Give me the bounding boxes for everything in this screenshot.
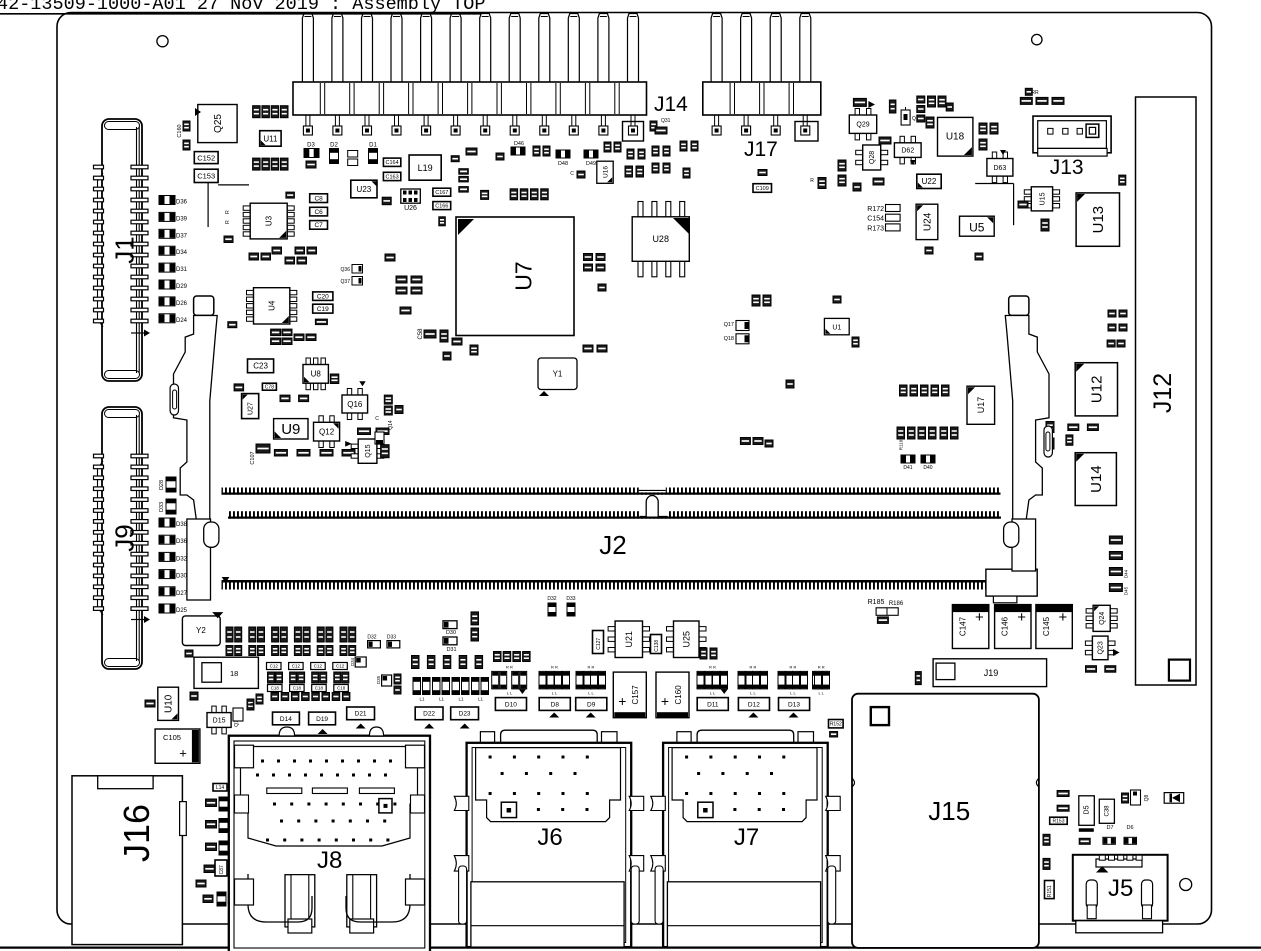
svg-text:R: R bbox=[810, 178, 814, 184]
svg-text:Q: Q bbox=[912, 116, 916, 122]
svg-text:C8: C8 bbox=[314, 196, 323, 203]
svg-text:D44: D44 bbox=[1124, 569, 1129, 578]
svg-text:D15: D15 bbox=[213, 718, 226, 725]
svg-text:J5: J5 bbox=[1108, 875, 1133, 902]
svg-text:C19: C19 bbox=[317, 306, 329, 313]
svg-text:U9: U9 bbox=[281, 421, 300, 438]
svg-text:R R: R R bbox=[818, 665, 825, 670]
svg-text:R R: R R bbox=[750, 665, 757, 670]
svg-text:D28: D28 bbox=[159, 480, 165, 490]
svg-text:C12: C12 bbox=[270, 664, 279, 669]
svg-text:D10: D10 bbox=[505, 701, 517, 708]
svg-text:Q24: Q24 bbox=[1099, 612, 1106, 625]
svg-text:R185: R185 bbox=[868, 599, 885, 606]
svg-text:Q12: Q12 bbox=[319, 428, 335, 437]
svg-text:Q8: Q8 bbox=[1144, 794, 1150, 801]
svg-text:U25: U25 bbox=[682, 631, 692, 648]
svg-text:D33: D33 bbox=[159, 502, 165, 512]
svg-text:L L: L L bbox=[750, 691, 756, 696]
svg-text:C163: C163 bbox=[386, 174, 399, 180]
svg-text:L1: L1 bbox=[458, 697, 464, 702]
svg-text:D26: D26 bbox=[176, 301, 188, 307]
svg-text:J12: J12 bbox=[1149, 373, 1177, 413]
svg-text:C127: C127 bbox=[596, 638, 602, 650]
svg-text:D33: D33 bbox=[387, 635, 396, 641]
svg-text:D34: D34 bbox=[176, 250, 188, 256]
svg-text:U11: U11 bbox=[263, 134, 278, 143]
svg-text:D3: D3 bbox=[307, 143, 315, 149]
svg-text:D29: D29 bbox=[176, 284, 188, 290]
svg-text:U15: U15 bbox=[1040, 192, 1047, 205]
svg-text:Q29: Q29 bbox=[856, 122, 869, 129]
svg-text:R110: R110 bbox=[899, 439, 904, 450]
svg-text:L1: L1 bbox=[419, 697, 425, 702]
svg-text:U21: U21 bbox=[624, 631, 634, 648]
svg-text:J17: J17 bbox=[744, 138, 778, 161]
svg-text:D22: D22 bbox=[423, 711, 435, 718]
svg-text:C78: C78 bbox=[265, 385, 274, 391]
svg-text:D37: D37 bbox=[176, 233, 188, 239]
svg-text:C166: C166 bbox=[435, 204, 448, 210]
svg-text:R186: R186 bbox=[889, 601, 904, 607]
svg-text:RR: RR bbox=[1031, 90, 1039, 96]
svg-text:D62: D62 bbox=[901, 148, 914, 155]
svg-text:Q18: Q18 bbox=[724, 336, 734, 342]
svg-text:D5: D5 bbox=[1084, 805, 1091, 814]
svg-text:J19: J19 bbox=[984, 668, 999, 678]
svg-text:R R: R R bbox=[551, 665, 558, 670]
svg-text:Q37: Q37 bbox=[341, 279, 351, 285]
svg-text:D48: D48 bbox=[558, 161, 568, 167]
svg-text:D31: D31 bbox=[176, 267, 188, 273]
svg-text:18: 18 bbox=[230, 669, 238, 678]
svg-text:U17: U17 bbox=[976, 397, 986, 414]
svg-text:Q31: Q31 bbox=[661, 118, 671, 124]
svg-text:D19: D19 bbox=[316, 716, 328, 723]
svg-text:J7: J7 bbox=[734, 824, 759, 851]
svg-text:D12: D12 bbox=[748, 701, 760, 708]
svg-text:L L: L L bbox=[818, 691, 824, 696]
svg-text:D25: D25 bbox=[176, 608, 188, 614]
svg-text:U27: U27 bbox=[248, 402, 255, 415]
svg-text:D2: D2 bbox=[330, 143, 338, 149]
svg-text:C138: C138 bbox=[654, 640, 660, 652]
svg-text:Q28: Q28 bbox=[869, 151, 876, 164]
svg-text:C160: C160 bbox=[177, 124, 183, 137]
svg-text:L L: L L bbox=[710, 691, 716, 696]
svg-text:R R: R R bbox=[506, 665, 513, 670]
svg-text:U8: U8 bbox=[311, 370, 322, 379]
svg-text:R151: R151 bbox=[1047, 885, 1053, 897]
svg-text:Q36: Q36 bbox=[341, 267, 351, 273]
svg-text:U18: U18 bbox=[946, 132, 965, 143]
svg-text:Q14: Q14 bbox=[388, 420, 394, 430]
svg-text:D39: D39 bbox=[176, 216, 188, 222]
svg-text:D11: D11 bbox=[707, 701, 719, 708]
svg-text:L L: L L bbox=[790, 691, 796, 696]
svg-text:U13: U13 bbox=[1090, 206, 1107, 234]
svg-text:D46: D46 bbox=[514, 141, 524, 147]
svg-text:J14: J14 bbox=[654, 93, 688, 116]
svg-text:+: + bbox=[661, 693, 669, 709]
svg-text:C: C bbox=[375, 416, 379, 422]
svg-text:Q23: Q23 bbox=[1098, 641, 1105, 654]
svg-text:J8: J8 bbox=[317, 847, 342, 874]
svg-text:D34: D34 bbox=[350, 657, 355, 666]
svg-text:R R: R R bbox=[790, 665, 797, 670]
svg-text:L14: L14 bbox=[216, 785, 225, 791]
svg-text:D41: D41 bbox=[903, 465, 912, 471]
svg-text:D6: D6 bbox=[1126, 825, 1133, 831]
svg-text:D38: D38 bbox=[176, 522, 188, 528]
svg-text:U5: U5 bbox=[969, 221, 985, 235]
svg-text:C145: C145 bbox=[1042, 616, 1051, 636]
svg-text:Q16: Q16 bbox=[347, 400, 363, 409]
svg-text:D40: D40 bbox=[923, 465, 932, 471]
svg-text:U1: U1 bbox=[832, 324, 841, 331]
svg-text:+: + bbox=[179, 746, 187, 761]
svg-text:U22: U22 bbox=[922, 177, 937, 186]
svg-text:U3: U3 bbox=[265, 215, 274, 226]
svg-text:+: + bbox=[618, 693, 626, 709]
svg-text:J2: J2 bbox=[599, 530, 626, 560]
svg-text:+: + bbox=[1059, 609, 1068, 626]
svg-text:L L: L L bbox=[588, 691, 594, 696]
svg-text:U24: U24 bbox=[923, 212, 934, 231]
svg-text:C12: C12 bbox=[314, 664, 323, 669]
svg-text:D14: D14 bbox=[280, 716, 292, 723]
svg-text:C6: C6 bbox=[314, 209, 323, 216]
svg-text:R: R bbox=[225, 210, 231, 214]
svg-text:Q17: Q17 bbox=[724, 322, 734, 328]
svg-text:D27: D27 bbox=[176, 591, 188, 597]
svg-text:U16: U16 bbox=[602, 166, 609, 178]
svg-text:C160: C160 bbox=[674, 685, 683, 705]
svg-text:R172: R172 bbox=[867, 206, 884, 213]
svg-text:D21: D21 bbox=[355, 711, 367, 718]
svg-text:C152: C152 bbox=[197, 153, 215, 162]
svg-text:C154: C154 bbox=[867, 216, 884, 223]
svg-text:C18: C18 bbox=[293, 686, 302, 691]
svg-text:U23: U23 bbox=[357, 185, 372, 194]
svg-text:D31: D31 bbox=[446, 647, 456, 653]
svg-text:D9: D9 bbox=[587, 701, 596, 708]
svg-text:U28: U28 bbox=[652, 234, 669, 244]
svg-text:C23: C23 bbox=[253, 362, 268, 371]
svg-text:D23: D23 bbox=[459, 711, 471, 718]
svg-text:R R: R R bbox=[709, 665, 716, 670]
svg-text:L1: L1 bbox=[478, 697, 484, 702]
svg-text:C105: C105 bbox=[163, 733, 181, 742]
svg-text:D32: D32 bbox=[547, 596, 556, 602]
svg-text:C18: C18 bbox=[271, 686, 280, 691]
svg-text:C18: C18 bbox=[337, 686, 346, 691]
svg-text:L19: L19 bbox=[418, 163, 433, 173]
svg-text:D1: D1 bbox=[369, 143, 377, 149]
svg-text:D13: D13 bbox=[788, 701, 800, 708]
svg-text:D8: D8 bbox=[551, 701, 560, 708]
svg-text:C12: C12 bbox=[336, 664, 345, 669]
svg-text:R173: R173 bbox=[867, 225, 884, 232]
svg-text:D35: D35 bbox=[376, 675, 381, 684]
svg-text:J13: J13 bbox=[1050, 156, 1084, 179]
svg-text:C58: C58 bbox=[418, 328, 424, 340]
svg-text:D36: D36 bbox=[176, 539, 188, 545]
svg-text:C107: C107 bbox=[250, 451, 256, 464]
svg-text:U26: U26 bbox=[404, 205, 417, 212]
svg-text:C167: C167 bbox=[435, 190, 448, 196]
svg-text:D45: D45 bbox=[1124, 586, 1129, 595]
svg-text:D49: D49 bbox=[586, 161, 596, 167]
svg-text:D63: D63 bbox=[993, 165, 1006, 172]
svg-text:Y1: Y1 bbox=[553, 370, 563, 379]
svg-text:C18: C18 bbox=[315, 686, 324, 691]
svg-text:J16: J16 bbox=[116, 804, 157, 862]
svg-text:L L: L L bbox=[552, 691, 558, 696]
svg-text:R152: R152 bbox=[830, 722, 842, 728]
svg-text:J15: J15 bbox=[928, 796, 970, 826]
svg-text:D32: D32 bbox=[367, 635, 376, 641]
svg-text:R153: R153 bbox=[1053, 819, 1065, 825]
svg-text:J1: J1 bbox=[109, 236, 139, 263]
svg-text:C12: C12 bbox=[292, 664, 301, 669]
svg-text:Y2: Y2 bbox=[196, 626, 206, 635]
svg-text:R R: R R bbox=[588, 665, 595, 670]
svg-text:L1: L1 bbox=[439, 697, 445, 702]
svg-text:U12: U12 bbox=[1089, 376, 1106, 404]
svg-text:Q15: Q15 bbox=[365, 444, 372, 457]
svg-text:D36: D36 bbox=[176, 200, 188, 206]
svg-text:C7: C7 bbox=[314, 222, 323, 229]
svg-text:D11: D11 bbox=[250, 702, 255, 710]
svg-text:J9: J9 bbox=[109, 524, 139, 551]
svg-text:U14: U14 bbox=[1088, 465, 1105, 493]
svg-text:C20: C20 bbox=[317, 294, 329, 301]
svg-text:Q25: Q25 bbox=[213, 114, 224, 133]
svg-text:C38: C38 bbox=[1105, 805, 1111, 817]
svg-text:C153: C153 bbox=[197, 172, 215, 181]
svg-text:C157: C157 bbox=[631, 685, 640, 705]
svg-text:L L: L L bbox=[507, 691, 513, 696]
svg-text:D24: D24 bbox=[176, 318, 188, 324]
svg-text:U10: U10 bbox=[164, 694, 175, 713]
svg-text:D33: D33 bbox=[566, 596, 575, 602]
svg-text:D32: D32 bbox=[176, 556, 188, 562]
svg-text:C109: C109 bbox=[756, 186, 769, 192]
svg-text:U4: U4 bbox=[268, 300, 277, 311]
svg-text:D30: D30 bbox=[446, 630, 456, 636]
svg-text:U7: U7 bbox=[510, 261, 536, 290]
svg-text:J6: J6 bbox=[537, 824, 562, 851]
svg-text:C146: C146 bbox=[1001, 616, 1010, 636]
svg-text:D30: D30 bbox=[176, 574, 188, 580]
svg-text:R: R bbox=[225, 220, 231, 224]
svg-text:+: + bbox=[1017, 609, 1026, 626]
svg-text:C147: C147 bbox=[958, 616, 967, 636]
svg-text:C164: C164 bbox=[386, 160, 399, 166]
svg-text:C: C bbox=[570, 171, 574, 177]
svg-text:+: + bbox=[975, 609, 984, 626]
svg-text:D7: D7 bbox=[1106, 825, 1113, 831]
svg-text:C87: C87 bbox=[219, 865, 225, 874]
